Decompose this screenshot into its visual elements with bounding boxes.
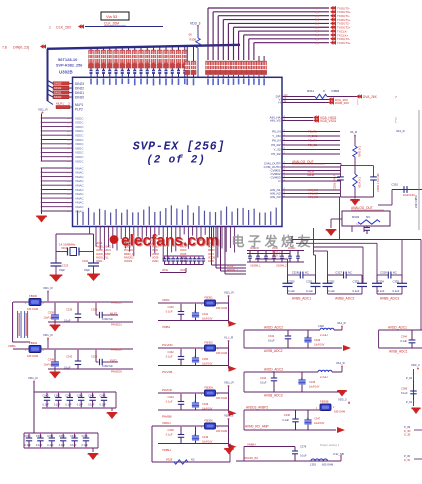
svg-text:SVP-EX [256]: SVP-EX [256] — [133, 141, 225, 154]
svg-text:VD1_R: VD1_R — [224, 291, 235, 295]
svg-text:P6_IN: P6_IN — [272, 130, 280, 134]
svg-text:C323: C323 — [62, 264, 69, 268]
svg-text:0.1uF: 0.1uF — [166, 355, 173, 359]
svg-text:C338: C338 — [48, 311, 55, 315]
svg-text:AW3A: AW3A — [307, 170, 315, 174]
svg-text:VD30: VD30 — [272, 248, 278, 250]
svg-text:P_30: P_30 — [404, 454, 411, 458]
svg-text:C343: C343 — [314, 338, 321, 342]
svg-text:FB30A: FB30A — [205, 386, 214, 390]
svg-text:C344: C344 — [260, 376, 267, 380]
svg-text:AVDD_AVBP: AVDD_AVBP — [96, 253, 111, 256]
svg-text:2.2uH: 2.2uH — [320, 333, 327, 337]
svg-text:AVDD2: AVDD2 — [124, 260, 133, 263]
svg-text:2.2uH: 2.2uH — [320, 375, 327, 379]
svg-text:P_91: P_91 — [406, 400, 413, 404]
svg-text:MLP1: MLP1 — [56, 102, 64, 106]
svg-text:VD1_R: VD1_R — [28, 376, 39, 380]
svg-text:U302B: U302B — [59, 70, 73, 75]
svg-text:PB_R0: PB_R0 — [308, 139, 317, 143]
svg-text:VMBH: VMBH — [247, 442, 256, 446]
svg-text:0.1uF: 0.1uF — [25, 444, 32, 447]
svg-text:L302: L302 — [318, 324, 324, 328]
svg-text:C334: C334 — [378, 279, 385, 283]
svg-text:0.1uF: 0.1uF — [59, 444, 66, 447]
svg-text:C345: C345 — [309, 380, 316, 384]
svg-text:FB306: FB306 — [205, 419, 214, 423]
svg-text:7,8: 7,8 — [2, 45, 7, 49]
svg-text:VD29: VD29 — [227, 265, 234, 268]
svg-text:C328: C328 — [380, 270, 387, 274]
svg-text:FB301: FB301 — [205, 296, 214, 300]
svg-text:Via 53: Via 53 — [106, 14, 118, 19]
svg-text:172: 172 — [67, 177, 70, 179]
svg-text:154: 154 — [67, 135, 70, 137]
svg-text:C341: C341 — [202, 312, 209, 316]
svg-text:VDDH: VDDH — [162, 421, 171, 425]
svg-text:0_0: 0_0 — [315, 15, 320, 18]
svg-text:C342: C342 — [268, 334, 275, 338]
svg-text:C386: C386 — [401, 386, 408, 390]
svg-text:10uF/16V: 10uF/16V — [309, 386, 320, 389]
svg-text:VA_R: VA_R — [350, 130, 357, 134]
svg-text:C350: C350 — [202, 357, 209, 361]
svg-text:D_30: D_30 — [404, 459, 411, 462]
svg-text:0.1uF: 0.1uF — [268, 339, 275, 343]
svg-text:FB302: FB302 — [29, 341, 38, 345]
svg-text:V4BM: V4BM — [331, 89, 340, 93]
svg-text:C342: C342 — [168, 350, 175, 354]
svg-text:US29M_2: US29M_2 — [276, 265, 287, 268]
svg-text:C309: C309 — [91, 308, 98, 312]
svg-text:VMBG: VMBG — [8, 344, 16, 348]
svg-text:156: 156 — [67, 144, 70, 146]
svg-text:DIN[0..23]: DIN[0..23] — [13, 45, 29, 49]
svg-text:C346: C346 — [202, 402, 209, 406]
svg-text:0.1uF: 0.1uF — [88, 403, 95, 406]
svg-text:DIN21: DIN21 — [75, 91, 84, 95]
svg-text:ANALOG_OUT: ANALOG_OUT — [351, 206, 373, 210]
svg-text:C324: C324 — [82, 259, 89, 263]
svg-text:AW3B: AW3B — [307, 173, 315, 177]
svg-text:VD3y: VD3y — [180, 269, 187, 272]
svg-text:AVDD_ADC3: AVDD_ADC3 — [96, 249, 111, 252]
svg-text:RGND_5A: RGND_5A — [244, 456, 258, 460]
svg-text:AVBB_ADC2: AVBB_ADC2 — [335, 296, 354, 300]
svg-text:VI_I_R: VI_I_R — [224, 336, 234, 340]
svg-text:C335: C335 — [393, 279, 400, 283]
svg-text:PAVDD1: PAVDD1 — [111, 323, 122, 327]
svg-text:173: 173 — [67, 181, 70, 183]
svg-text:AVDD_PLL: AVDD_PLL — [96, 256, 109, 259]
svg-text:C373: C373 — [59, 435, 66, 438]
svg-text:C340: C340 — [168, 305, 175, 309]
svg-text:152: 152 — [67, 127, 70, 129]
svg-text:174: 174 — [67, 185, 70, 187]
svg-text:C344: C344 — [88, 395, 95, 398]
svg-text:Y_CM: Y_CM — [272, 134, 281, 138]
svg-text:0_0: 0_0 — [315, 23, 320, 26]
svg-text:+: + — [307, 334, 309, 338]
svg-text:180 OHM: 180 OHM — [216, 351, 227, 355]
svg-text:DIN23: DIN23 — [75, 82, 84, 86]
svg-text:Power saving 1: Power saving 1 — [320, 443, 340, 447]
svg-text:VD1_R: VD1_R — [224, 381, 235, 385]
svg-text:C344: C344 — [401, 334, 408, 338]
svg-text:171: 171 — [67, 172, 70, 174]
svg-text:P6_R2: P6_R2 — [271, 152, 281, 156]
svg-text:C333: C333 — [353, 279, 360, 283]
svg-text:177: 177 — [67, 198, 70, 200]
svg-text:0.1uF: 0.1uF — [288, 289, 295, 293]
svg-text:DIN20: DIN20 — [75, 95, 84, 99]
svg-text:AIN_N3: AIN_N3 — [308, 195, 318, 199]
svg-text:VGA_VS31: VGA_VS31 — [320, 119, 337, 123]
svg-text:176: 176 — [67, 194, 70, 196]
svg-text:151: 151 — [67, 122, 70, 124]
svg-text:180 OHM: 180 OHM — [216, 306, 227, 310]
svg-text:AVBB_ADC3: AVBB_ADC3 — [380, 296, 399, 300]
svg-text:(2 of 2): (2 of 2) — [146, 155, 205, 167]
svg-text:0.3027uF: 0.3027uF — [102, 364, 113, 368]
svg-text:0_0: 0_0 — [315, 7, 320, 10]
svg-text:+: + — [194, 309, 196, 313]
svg-text:+: + — [307, 416, 309, 420]
svg-text:14.3188MHz: 14.3188MHz — [59, 242, 76, 246]
svg-text:0.1uF: 0.1uF — [353, 289, 360, 293]
svg-text:AVDD30: AVDD30 — [250, 247, 259, 250]
svg-text:PAVDD: PAVDD — [162, 388, 173, 392]
svg-text:DIN21: DIN21 — [54, 91, 62, 95]
svg-text:C3003 0.47uF: C3003 0.47uF — [334, 174, 337, 190]
svg-text:VDDC: VDDC — [75, 159, 84, 163]
svg-text:VA1_R: VA1_R — [336, 361, 345, 365]
svg-text:0_0: 0_0 — [315, 38, 320, 41]
svg-text:R314 1K1: R314 1K1 — [359, 176, 362, 188]
svg-text:FB30B: FB30B — [320, 400, 329, 404]
svg-text:NC: NC — [348, 270, 352, 274]
svg-text:C32B: C32B — [292, 270, 299, 274]
svg-text:elecfans.com: elecfans.com — [121, 233, 219, 250]
svg-text:C340: C340 — [43, 395, 50, 398]
svg-text:P_92: P_92 — [406, 376, 413, 380]
svg-text:10uF/16V: 10uF/16V — [202, 363, 213, 366]
svg-text:PB_R1: PB_R1 — [308, 130, 317, 134]
svg-text:NC: NC — [191, 458, 195, 462]
svg-text:155: 155 — [67, 140, 70, 142]
svg-text:0.1uF: 0.1uF — [100, 403, 107, 406]
svg-text:C310: C310 — [391, 183, 398, 187]
svg-text:178: 178 — [67, 202, 70, 204]
svg-text:0.1uF: 0.1uF — [82, 444, 89, 447]
svg-text:0.1uF: 0.1uF — [166, 433, 173, 437]
svg-text:ANALOG_OUT: ANALOG_OUT — [292, 160, 314, 164]
svg-text:MB29_1: MB29_1 — [124, 253, 134, 256]
svg-text:FB300: FB300 — [29, 294, 38, 298]
svg-text:VDDH: VDDH — [152, 253, 159, 256]
svg-text:MLP1: MLP1 — [75, 103, 84, 107]
svg-text:VD3_3: VD3_3 — [338, 397, 347, 401]
svg-text:157: 157 — [67, 148, 70, 150]
svg-text:C3004 4.7uF/16V: C3004 4.7uF/16V — [377, 173, 380, 192]
svg-text:Y_CM1: Y_CM1 — [308, 134, 318, 138]
svg-text:DIN23: DIN23 — [54, 82, 62, 86]
svg-text:VD29_1: VD29_1 — [272, 256, 281, 258]
svg-text:PAVDD1: PAVDD1 — [111, 301, 122, 305]
svg-text:发: 发 — [263, 234, 278, 249]
svg-text:AVDD_ADC1: AVDD_ADC1 — [388, 325, 407, 329]
svg-text:0.1uF: 0.1uF — [77, 403, 84, 406]
svg-text:SVP-K082_256: SVP-K082_256 — [56, 64, 82, 68]
svg-text:0.1uF: 0.1uF — [400, 339, 407, 343]
svg-text:C344: C344 — [168, 395, 175, 399]
svg-text:180: 180 — [67, 211, 70, 213]
svg-text:C339: C339 — [66, 308, 73, 312]
svg-text:PLP2: PLP2 — [75, 108, 83, 112]
svg-text:0K: 0K — [189, 33, 193, 37]
svg-text:AIN_VS: AIN_VS — [270, 119, 281, 123]
svg-text:AVSB_ADC1: AVSB_ADC1 — [389, 349, 408, 353]
svg-text:VD30: VD30 — [96, 242, 103, 245]
svg-text:0_0: 0_0 — [315, 30, 320, 33]
svg-text:D_3E: D_3E — [404, 434, 411, 437]
svg-text:AVSB_ADC3: AVSB_ADC3 — [264, 394, 283, 398]
svg-text:1: 1 — [49, 25, 51, 29]
svg-text:FB305: FB305 — [205, 341, 214, 345]
svg-text:C349: C349 — [202, 435, 209, 439]
svg-text:+: + — [194, 432, 196, 436]
svg-text:VDDL: VDDL — [162, 298, 170, 302]
svg-text:3.3v_NB: 3.3v_NB — [333, 452, 344, 456]
svg-text:P6_R2: P6_R2 — [271, 143, 281, 147]
svg-text:友: 友 — [297, 234, 310, 249]
svg-text:VD1_R: VD1_R — [43, 333, 54, 337]
svg-text:C345: C345 — [100, 395, 107, 398]
svg-text:0_0: 0_0 — [315, 19, 320, 22]
svg-text:PAVDD0: PAVDD0 — [111, 348, 122, 352]
svg-text:AVDD3_AVBP2: AVDD3_AVBP2 — [246, 406, 268, 410]
svg-text:VA1_R: VA1_R — [337, 321, 346, 325]
svg-text:7: 7 — [395, 96, 397, 100]
svg-text:0.1uF: 0.1uF — [65, 403, 72, 406]
svg-text:AVBB_ADC1: AVBB_ADC1 — [292, 296, 311, 300]
svg-text:10uF/16V: 10uF/16V — [44, 317, 55, 320]
svg-text:DVA_26X: DVA_26X — [363, 95, 378, 99]
svg-text:AVDD_ADC3: AVDD_ADC3 — [264, 367, 283, 371]
svg-text:VD3_3: VD3_3 — [190, 21, 200, 25]
svg-text:AVM1: AVM1 — [152, 260, 159, 263]
svg-text:C343: C343 — [77, 395, 84, 398]
svg-text:C370: C370 — [25, 435, 32, 438]
svg-text:C372: C372 — [47, 435, 54, 438]
svg-text:10uF/16V: 10uF/16V — [44, 364, 55, 367]
svg-text:10uF/16V: 10uF/16V — [314, 422, 325, 425]
svg-text:AVM0_RO_AMP: AVM0_RO_AMP — [245, 424, 269, 428]
svg-text:AIN_N3: AIN_N3 — [270, 195, 281, 199]
svg-text:C332: C332 — [328, 279, 335, 283]
svg-text:C348: C348 — [168, 428, 175, 432]
svg-text:MB29_1: MB29_1 — [272, 252, 281, 254]
svg-text:R328: R328 — [166, 458, 173, 462]
svg-text:0.1uF: 0.1uF — [328, 289, 335, 293]
svg-text:179: 179 — [67, 207, 70, 209]
svg-text:56T128-10: 56T128-10 — [58, 57, 78, 62]
svg-text:+: + — [194, 354, 196, 358]
svg-text:P_39: P_39 — [404, 425, 411, 429]
svg-text:电: 电 — [231, 234, 244, 249]
svg-text:C309: C309 — [91, 355, 98, 359]
svg-text:VMBH: VMBH — [162, 448, 171, 452]
svg-text:H: H — [278, 101, 280, 105]
svg-text:180 OHM: 180 OHM — [27, 354, 38, 358]
svg-text:AVDD_ADC2: AVDD_ADC2 — [96, 246, 111, 249]
svg-text:P6_IN: P6_IN — [272, 139, 280, 143]
svg-text:10uF/16V: 10uF/16V — [314, 344, 325, 347]
svg-text:子: 子 — [248, 234, 261, 249]
svg-text:0.1uF: 0.1uF — [36, 444, 43, 447]
svg-text:0.1uF: 0.1uF — [300, 453, 307, 457]
svg-text:C331: C331 — [306, 279, 313, 283]
svg-text:0_0: 0_0 — [315, 11, 320, 14]
svg-text:AVDD1: AVDD1 — [288, 247, 296, 250]
svg-text:C375: C375 — [82, 435, 89, 438]
svg-text:PAVBB: PAVBB — [162, 415, 172, 419]
svg-text:VD3_3: VD3_3 — [411, 363, 420, 367]
svg-text:PLP2: PLP2 — [110, 359, 117, 363]
svg-text:C374: C374 — [70, 435, 77, 438]
svg-text:MLP1: MLP1 — [110, 312, 118, 316]
svg-text:33pF: 33pF — [59, 268, 65, 272]
svg-text:R343: R343 — [352, 215, 360, 219]
svg-text:CLK_26X: CLK_26X — [56, 25, 72, 29]
svg-text:NC: NC — [393, 270, 397, 274]
svg-text:C341: C341 — [54, 395, 61, 398]
svg-text:+: + — [194, 399, 196, 403]
svg-text:R308: R308 — [189, 38, 196, 42]
svg-text:AVSB_ADC2: AVSB_ADC2 — [264, 349, 283, 353]
svg-text:159: 159 — [67, 157, 70, 159]
svg-text:VA1_R: VA1_R — [396, 129, 405, 133]
svg-text:158: 158 — [67, 152, 70, 154]
svg-text:TXOUT3+: TXOUT3+ — [337, 41, 351, 45]
svg-text:0.1uF: 0.1uF — [166, 400, 173, 404]
svg-text:175: 175 — [67, 190, 70, 192]
svg-text:153: 153 — [67, 131, 70, 133]
svg-text:0_0: 0_0 — [315, 42, 320, 45]
svg-text:DWB_26X: DWB_26X — [335, 101, 349, 105]
svg-text:C348: C348 — [48, 358, 55, 362]
svg-text:MB29S_1: MB29S_1 — [227, 269, 239, 272]
svg-text:23K V4BM: 23K V4BM — [414, 196, 418, 208]
svg-text:DIN22: DIN22 — [54, 86, 62, 90]
svg-text:0.1uF: 0.1uF — [282, 418, 289, 422]
svg-text:C346: C346 — [284, 413, 291, 417]
svg-text:0.1uF: 0.1uF — [393, 289, 400, 293]
svg-text:0.1uF: 0.1uF — [43, 403, 50, 406]
svg-text:VD29: VD29 — [152, 256, 159, 259]
svg-text:0_0: 0_0 — [315, 26, 320, 29]
svg-text:0.1uF: 0.1uF — [260, 381, 267, 385]
svg-text:C327: C327 — [335, 270, 342, 274]
svg-text:PAVDD0: PAVDD0 — [111, 370, 122, 374]
svg-text:DIN22: DIN22 — [75, 86, 84, 90]
svg-text:C330: C330 — [288, 279, 295, 283]
svg-text:0.1uF: 0.1uF — [47, 444, 54, 447]
svg-text:0_0: 0_0 — [315, 34, 320, 37]
svg-text:10uF/16V: 10uF/16V — [202, 408, 213, 411]
svg-text:R311: R311 — [307, 89, 314, 93]
svg-text:180 OHM: 180 OHM — [27, 307, 38, 311]
svg-text:C342: C342 — [66, 355, 73, 359]
svg-text:US29M_1: US29M_1 — [250, 265, 261, 268]
svg-text:180 OHM: 180 OHM — [216, 396, 227, 400]
svg-text:10uF/16V: 10uF/16V — [202, 318, 213, 321]
svg-text:0.1uF: 0.1uF — [166, 310, 173, 314]
svg-text:C342: C342 — [65, 395, 72, 398]
svg-text:0.1uF: 0.1uF — [401, 391, 408, 395]
svg-text:CLK_26M: CLK_26M — [104, 22, 119, 26]
svg-text:VD3_3: VD3_3 — [224, 414, 234, 418]
svg-text:0.1uF: 0.1uF — [70, 444, 77, 447]
svg-text:NC: NC — [305, 270, 309, 274]
svg-text:10uF/16V: 10uF/16V — [202, 441, 213, 444]
svg-text:0.1uF: 0.1uF — [378, 289, 385, 293]
svg-text:R342 1K1: R342 1K1 — [359, 145, 362, 157]
svg-text:C347: C347 — [314, 417, 321, 421]
svg-text:VD1_R: VD1_R — [38, 108, 49, 112]
svg-text:PGVDD: PGVDD — [162, 343, 174, 347]
svg-text:X302: X302 — [61, 246, 68, 250]
svg-text:0.1uF: 0.1uF — [306, 289, 313, 293]
svg-text:Y_32: Y_32 — [273, 148, 280, 152]
svg-text:180 OHM: 180 OHM — [216, 429, 227, 433]
svg-text:AVDD_ADC2: AVDD_ADC2 — [264, 325, 283, 329]
svg-text:160: 160 — [67, 161, 70, 163]
svg-text:150: 150 — [67, 118, 70, 120]
svg-text:0.3027uF: 0.3027uF — [102, 317, 113, 321]
svg-text:+: + — [301, 376, 303, 380]
svg-text:180 OHM: 180 OHM — [334, 410, 345, 414]
svg-text:10uF/16V: 10uF/16V — [403, 193, 415, 197]
svg-text:33pF: 33pF — [84, 268, 90, 272]
svg-text:170: 170 — [67, 168, 70, 170]
svg-text:VD3x: VD3x — [162, 269, 169, 272]
svg-text:0.1uF: 0.1uF — [54, 403, 61, 406]
svg-text:VMB1: VMB1 — [162, 325, 171, 329]
svg-text:PAVDD1: PAVDD1 — [124, 256, 134, 259]
svg-text:PGVSB: PGVSB — [162, 370, 172, 374]
svg-text:DIN20: DIN20 — [54, 95, 62, 99]
svg-text:VD1_R: VD1_R — [43, 286, 54, 290]
svg-text:C371: C371 — [36, 435, 43, 438]
svg-text:600 OHM: 600 OHM — [322, 463, 333, 467]
svg-text:L303: L303 — [310, 463, 316, 467]
svg-text:PB_G2: PB_G2 — [308, 143, 317, 147]
svg-text:C379: C379 — [300, 445, 307, 449]
